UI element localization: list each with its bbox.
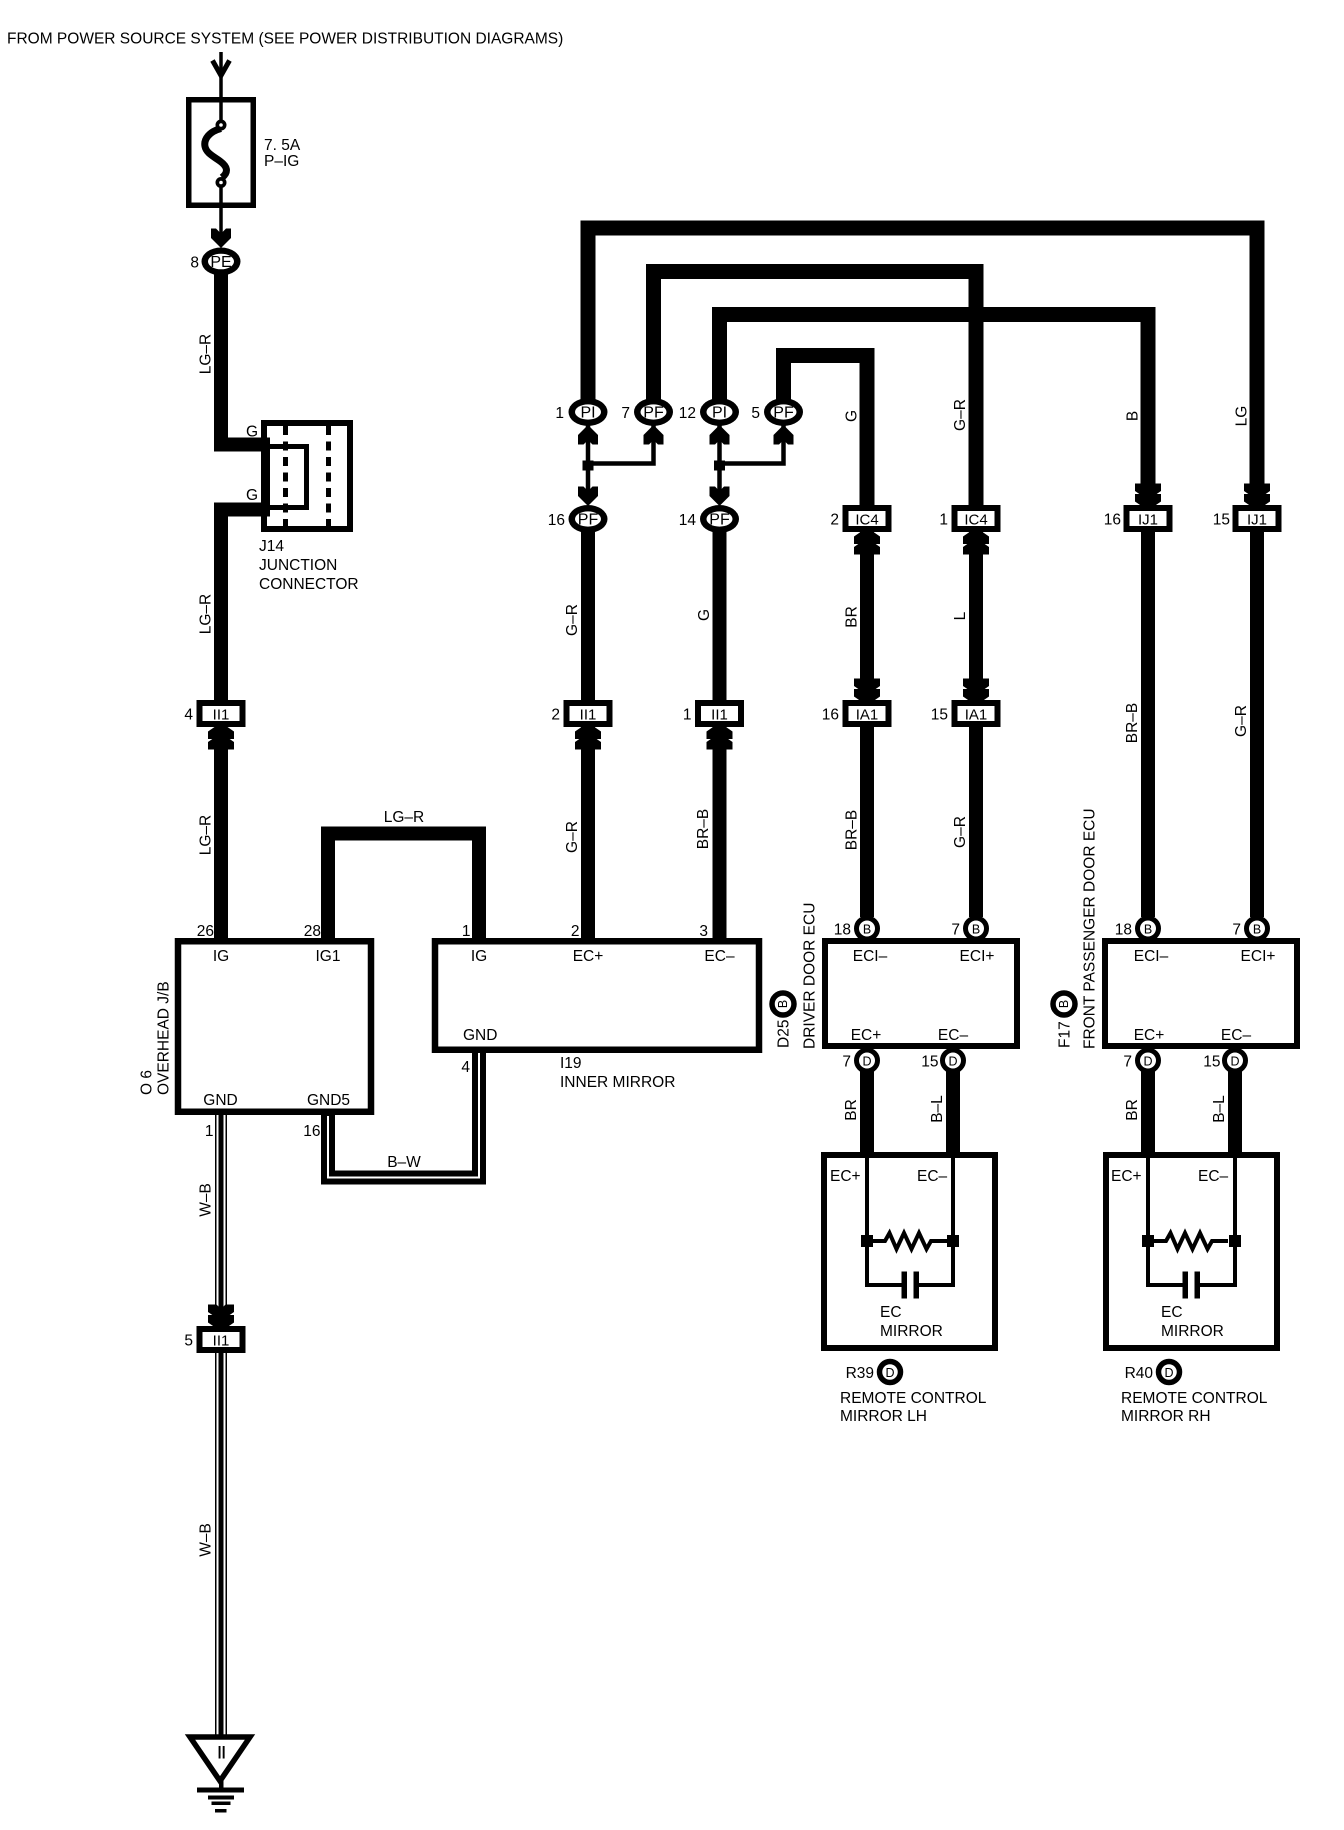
arrow into 16 IA1 from above [854,679,880,706]
front passenger door ECU box [1105,941,1297,1046]
wire G-R from 15 IJ1 to passenger door ECU pin 7 [1250,530,1264,917]
svg-text:B: B [1144,923,1152,937]
svg-text:LG–R: LG–R [198,594,215,635]
svg-text:FROM POWER SOURCE SYSTEM (SEE: FROM POWER SOURCE SYSTEM (SEE POWER DIST… [7,31,563,48]
svg-text:4: 4 [184,707,193,724]
wire G-R from inner mirror EC+ up to 2 II1 [581,726,595,939]
svg-text:O 6: O 6 [139,1070,156,1095]
label EC MIRROR [1161,1304,1224,1340]
svg-text:IA1: IA1 [856,707,879,724]
svg-text:EC+: EC+ [830,1168,861,1185]
wire BR from 7 D to mirror RH EC+ [1141,1071,1155,1156]
svg-text:IJ1: IJ1 [1138,512,1158,529]
svg-text:IC4: IC4 [855,512,878,529]
svg-text:16: 16 [548,512,565,529]
wire B-L from 15 D to mirror RH EC- [1228,1071,1242,1156]
svg-text:EC: EC [1161,1304,1183,1321]
svg-text:EC+: EC+ [851,1027,882,1044]
connector 16 PF [569,505,608,533]
svg-text:EC–: EC– [917,1168,948,1185]
connector 14 PF [700,505,739,533]
svg-text:EC–: EC– [1221,1027,1252,1044]
inner mirror I19 box [435,941,759,1050]
internal wire right [1200,1158,1235,1285]
bus wire from 12 PI to 16 IJ1 [720,315,1149,506]
arrow into 14 PF from above [710,487,730,507]
svg-text:2: 2 [551,707,560,724]
label J14 JUNCTION CONNECTOR [259,538,359,593]
svg-text:DRIVER DOOR ECU: DRIVER DOOR ECU [802,903,819,1049]
svg-text:15: 15 [921,1054,938,1071]
resistor (mirror heater RH) [1142,1233,1241,1249]
svg-text:B: B [972,923,980,937]
wire W-B from pin 1 GND down to connector 5 II1 [215,1115,227,1326]
connector ring F17 B [1053,993,1075,1015]
svg-text:8: 8 [190,255,199,272]
connector ring 18 B [1138,918,1159,939]
arrow into 1 II1 from below [707,723,733,750]
svg-text:IG: IG [213,948,229,965]
junction dot [714,461,725,471]
svg-text:IC4: IC4 [964,512,987,529]
svg-text:LG–R: LG–R [198,334,215,375]
svg-text:B–L: B–L [929,1095,946,1123]
arrow into 2 II1 from below [575,723,601,750]
svg-text:D: D [862,1055,871,1069]
svg-text:G–R: G–R [564,604,581,636]
svg-text:D: D [1164,1366,1173,1380]
connector 1 IC4 [955,508,998,529]
svg-text:JUNCTION: JUNCTION [259,557,337,574]
svg-text:II1: II1 [711,707,728,724]
svg-text:4: 4 [461,1059,470,1076]
svg-text:BR–B: BR–B [695,809,712,850]
svg-text:R40: R40 [1125,1365,1154,1382]
arrow into 2 IC4 from below [854,528,880,555]
connector 15 IJ1 [1236,508,1279,529]
thin link wire 12 PI / 5 PF junction [720,425,784,493]
svg-text:1: 1 [205,1123,214,1140]
wire BR-B from 16 IA1 to driver door ECU pin 18 [860,726,874,917]
svg-text:7: 7 [842,1054,851,1071]
svg-text:EC–: EC– [938,1027,969,1044]
svg-text:MIRROR LH: MIRROR LH [840,1408,927,1425]
svg-text:OVERHEAD J/B: OVERHEAD J/B [156,981,173,1095]
arrow into 12 PI from below [710,425,730,445]
overhead J/B O 6 [178,941,371,1112]
svg-text:MIRROR: MIRROR [880,1323,943,1340]
svg-text:ECI–: ECI– [853,948,888,965]
label REMOTE CONTROL MIRROR RH [1121,1390,1268,1425]
svg-text:BR: BR [843,1099,860,1121]
svg-text:15: 15 [1203,1054,1220,1071]
svg-text:5: 5 [751,405,760,422]
svg-text:II1: II1 [213,1333,230,1350]
svg-text:16: 16 [822,707,839,724]
connector 8 PE [202,248,241,276]
connector ring 7 D [857,1050,878,1071]
arrow into 15 IA1 from above [963,679,989,706]
svg-text:LG: LG [1234,406,1251,427]
svg-text:1: 1 [462,923,471,940]
svg-text:ECI+: ECI+ [960,948,995,965]
arrow into 15 IJ1 from above [1244,484,1270,511]
svg-text:PF: PF [709,512,730,529]
arrow into 1 PI from below [578,425,598,445]
wire LG-R from J14 to connector II1 [221,510,267,701]
label EC MIRROR [880,1304,943,1340]
svg-text:B: B [1057,1000,1071,1008]
svg-text:CONNECTOR: CONNECTOR [259,576,359,593]
svg-text:D: D [1143,1055,1152,1069]
svg-text:7: 7 [621,405,630,422]
wire B-W from pin 16 GND5 to inner mirror pin 4 [328,1050,479,1178]
connector ring 15 D [943,1050,964,1071]
svg-text:W–B: W–B [198,1183,215,1217]
wire L between 1 IC4 and 15 IA1 [969,530,983,701]
svg-text:IG1: IG1 [316,948,341,965]
svg-text:2: 2 [830,512,839,529]
connector ring 18 B [857,918,878,939]
wire BR-B from inner mirror EC- up to 1 II1 [713,726,727,939]
svg-text:GND5: GND5 [307,1092,350,1109]
bus wire from 7 PF to 1 IC4 [654,272,977,506]
remote control mirror LH box [824,1155,995,1348]
arrow into 7 PF from below [644,425,664,445]
svg-text:GND: GND [203,1092,237,1109]
connector 16 IA1 [846,703,889,724]
svg-text:PF: PF [643,405,664,422]
svg-text:14: 14 [679,512,697,529]
internal wire left [1148,1158,1183,1285]
svg-text:PI: PI [712,405,727,422]
svg-text:EC: EC [880,1304,902,1321]
svg-text:REMOTE CONTROL: REMOTE CONTROL [1121,1390,1268,1407]
wire from power source into fuse [213,52,230,121]
arrow into II1 from below [208,723,234,750]
junction connector J14 [250,423,350,529]
bus wire from 5 PF to 2 IC4 [784,356,868,506]
connector ring 15 D [1225,1050,1246,1071]
connector ring R39 D [880,1362,901,1383]
svg-text:LG–R: LG–R [384,809,425,826]
svg-text:B: B [863,923,871,937]
svg-text:1: 1 [683,707,692,724]
svg-text:D: D [1230,1055,1239,1069]
capacitor (RH) [1183,1272,1201,1299]
svg-text:ECI–: ECI– [1134,948,1169,965]
connector 1 II1 [698,703,741,724]
svg-text:G–R: G–R [1233,705,1250,737]
svg-text:EC+: EC+ [573,948,604,965]
svg-text:26: 26 [197,923,214,940]
connector 16 IJ1 [1127,508,1170,529]
svg-text:D: D [885,1366,894,1380]
svg-text:REMOTE CONTROL: REMOTE CONTROL [840,1390,987,1407]
connector 5 PF [764,398,803,426]
connector ring 7 B [1247,918,1268,939]
svg-text:FRONT PASSENGER DOOR ECU: FRONT PASSENGER DOOR ECU [1082,808,1099,1049]
wire G-R from 16 PF down to 2 II1 [581,530,595,701]
svg-text:IA1: IA1 [965,707,988,724]
svg-text:B: B [1125,411,1142,421]
svg-text:II1: II1 [213,707,230,724]
svg-text:G–R: G–R [952,399,969,431]
connector 2 IC4 [846,508,889,529]
svg-text:18: 18 [1115,922,1132,939]
arrow into 16 IJ1 from above [1135,484,1161,511]
svg-text:G: G [844,410,861,422]
ground II [190,1737,250,1813]
svg-text:P–IG: P–IG [264,153,299,170]
svg-text:5: 5 [184,1333,193,1350]
svg-text:G: G [246,487,258,504]
junction dot [583,461,594,471]
fuse 7.5A P-IG [189,100,254,234]
wire LG-R from II1 to overhead J/B pin 26 [214,744,228,938]
arrow into connector PE [211,229,231,249]
svg-text:12: 12 [679,405,696,422]
svg-text:7. 5A: 7. 5A [264,137,301,154]
internal wire right [919,1158,953,1285]
svg-text:L: L [952,611,969,620]
connector 7 PF [634,398,673,426]
label REMOTE CONTROL MIRROR LH [840,1390,987,1425]
svg-text:BR: BR [844,606,861,628]
arrow into 16 PF from above [578,487,598,507]
wire BR between 2 IC4 and 16 IA1 [860,530,874,701]
svg-text:J14: J14 [259,538,284,555]
svg-text:GND: GND [463,1027,497,1044]
arrow into 1 IC4 from below [963,528,989,555]
svg-text:PI: PI [580,405,595,422]
remote control mirror RH box [1106,1155,1277,1348]
connector ring R40 D [1159,1362,1180,1383]
svg-text:G–R: G–R [952,816,969,848]
wire BR from 7 D to mirror LH EC+ [860,1071,874,1156]
svg-text:EC+: EC+ [1111,1168,1142,1185]
svg-text:B: B [1253,923,1261,937]
wire G from 14 PF down to 1 II1 [713,530,727,701]
svg-text:28: 28 [304,923,321,940]
svg-text:3: 3 [699,923,708,940]
connector ring D25 B [772,993,794,1015]
thin link wire 1 PI / 7 PF junction [588,425,654,493]
svg-text:II1: II1 [580,707,597,724]
svg-text:BR–B: BR–B [1124,703,1141,744]
connector 2 II1 [567,703,610,724]
svg-text:15: 15 [1213,512,1230,529]
svg-text:16: 16 [303,1123,320,1140]
svg-text:IG: IG [471,948,487,965]
wire G-R from 15 IA1 to driver door ECU pin 7 [969,726,983,917]
svg-text:B–W: B–W [387,1154,421,1171]
wire LG-R from pin 28 IG1 to inner mirror pin 1 [328,834,479,939]
internal wire left [867,1158,902,1285]
svg-text:1: 1 [939,512,948,529]
svg-text:G–R: G–R [564,821,581,853]
svg-text:16: 16 [1104,512,1121,529]
svg-text:BR–B: BR–B [844,810,861,851]
svg-text:EC–: EC– [1198,1168,1229,1185]
capacitor (LH) [902,1272,920,1299]
svg-text:15: 15 [931,707,948,724]
connector 15 IA1 [955,703,998,724]
svg-text:B: B [776,1000,790,1008]
wire BR-B from 16 IJ1 to passenger door ECU pin 18 [1141,530,1155,917]
svg-text:D25: D25 [776,1020,793,1048]
svg-text:BR: BR [1124,1099,1141,1121]
label O 6 OVERHEAD J/B [139,981,173,1095]
svg-text:R39: R39 [846,1365,874,1382]
svg-text:PF: PF [773,405,794,422]
arrow into 5 II1 from above [208,1305,234,1332]
svg-text:F17: F17 [1057,1021,1074,1048]
svg-text:7: 7 [951,922,960,939]
connector 5 II1 [200,1329,243,1350]
svg-text:G: G [246,424,258,441]
svg-text:18: 18 [834,922,851,939]
svg-text:IJ1: IJ1 [1247,512,1267,529]
connector 1 PI [569,398,608,426]
label I19 INNER MIRROR [560,1055,675,1091]
connector ring 7 B [966,918,987,939]
connector ring 7 D [1138,1050,1159,1071]
svg-text:2: 2 [571,923,580,940]
wire B-L from 15 D to mirror LH EC- [946,1071,960,1156]
bus wire from 1 PI to 15 IJ1 [588,228,1257,505]
svg-text:MIRROR RH: MIRROR RH [1121,1408,1211,1425]
svg-text:7: 7 [1232,922,1241,939]
resistor (mirror heater LH) [861,1233,959,1249]
svg-text:G: G [696,609,713,621]
connector 12 PI [700,398,739,426]
fuse value label 7.5A P-IG [264,137,301,170]
svg-text:EC–: EC– [704,948,735,965]
svg-text:ECI+: ECI+ [1241,948,1276,965]
svg-text:EC+: EC+ [1134,1027,1165,1044]
driver door ECU box [825,941,1017,1046]
svg-text:INNER MIRROR: INNER MIRROR [560,1074,675,1091]
svg-text:PF: PF [578,512,599,529]
wire LG-R from PE to J14 [221,270,267,445]
svg-text:7: 7 [1123,1054,1132,1071]
svg-text:B–L: B–L [1211,1095,1228,1123]
svg-text:D: D [948,1055,957,1069]
wire W-B from 5 II1 to ground [215,1353,227,1737]
connector 4 II1 [200,703,243,724]
svg-text:PE: PE [210,254,231,271]
svg-text:MIRROR: MIRROR [1161,1323,1224,1340]
svg-text:W–B: W–B [198,1523,215,1557]
svg-text:1: 1 [555,405,564,422]
svg-text:I19: I19 [560,1055,582,1072]
arrow into 5 PF from below [774,425,794,445]
svg-text:LG–R: LG–R [198,815,215,856]
